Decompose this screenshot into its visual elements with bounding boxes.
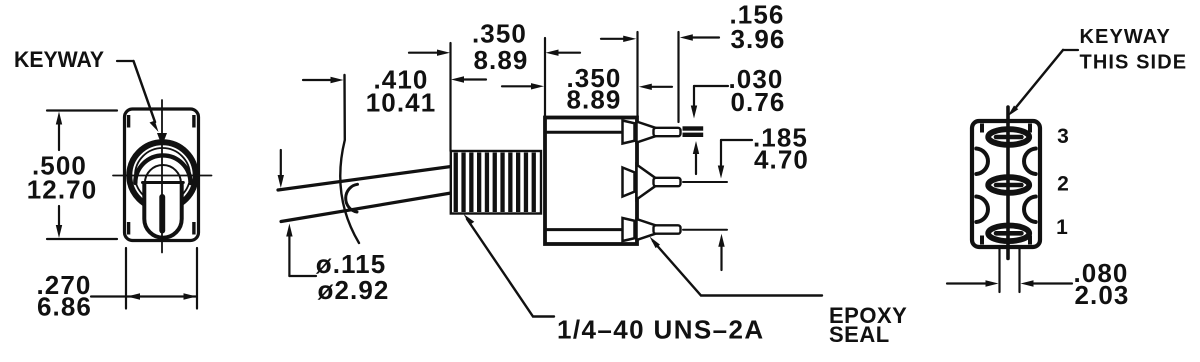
dimension .500 extension line top (47, 109, 117, 111)
terminal 3 oval (988, 129, 1029, 145)
svg-text:KEYWAY: KEYWAY (1080, 26, 1171, 48)
svg-text:6.86: 6.86 (37, 292, 92, 322)
lever equator line (143, 181, 184, 184)
rear corner ticks (980, 124, 984, 133)
dimension .185 extension line at pin3 (683, 229, 727, 231)
corner tick bottom-right (192, 222, 195, 235)
threads (454, 153, 536, 213)
switch body side outline (545, 118, 637, 245)
extension line at body right face (636, 32, 638, 117)
svg-text:1: 1 (1056, 216, 1068, 239)
svg-text:SEAL: SEAL (829, 322, 890, 347)
KEYWAY leader line (117, 60, 134, 62)
toggle lever lower line (281, 193, 451, 222)
lever ball dome outer arc (135, 155, 190, 183)
svg-text:0.76: 0.76 (730, 87, 785, 117)
horizontal centerline (113, 175, 212, 177)
terminal 2 oval (988, 177, 1029, 193)
.030 up arrow below bars (695, 152, 697, 174)
terminal 1 (top) (623, 121, 681, 144)
corner tick top-left (127, 115, 130, 128)
side bump arcs (976, 149, 988, 175)
lever swing arc + .410 extension (340, 75, 359, 243)
svg-text:12.70: 12.70 (27, 175, 98, 205)
dimension .270 line with arrows (91, 295, 197, 297)
dimension .350 #1 right arrow (554, 52, 580, 54)
terminal 1 oval (988, 226, 1029, 242)
threaded bushing outline (451, 151, 541, 214)
bushing inner circle (135, 148, 190, 203)
.185 down arrow + elbow to text (720, 140, 722, 168)
svg-text:2: 2 (1057, 173, 1069, 196)
dimension .500 line lower w/ down arrow (58, 206, 60, 227)
body interior line bottom (546, 228, 635, 231)
toggle lever upper line (278, 167, 451, 191)
1/4-40 leader (467, 219, 554, 317)
keyway this side leader (1063, 49, 1078, 51)
corner tick top-right (192, 115, 195, 128)
dimension .410 right arrow (460, 78, 486, 80)
svg-text:10.41: 10.41 (366, 88, 437, 118)
svg-text:4.70: 4.70 (754, 145, 809, 175)
svg-text:2.03: 2.03 (1074, 280, 1129, 310)
lever diameter top arrow (280, 150, 282, 178)
toggle lever capsule (144, 181, 181, 238)
dimension .270 extension line left (125, 248, 127, 309)
lever diameter bottom arrow + elbow (288, 234, 290, 276)
dimension .410 left arrow (303, 79, 334, 81)
switch body front outline (125, 109, 199, 241)
dimension .500 line upper w/ up arrow (58, 122, 60, 150)
corner tick bottom-left (127, 222, 130, 235)
rear centerline (1006, 107, 1010, 259)
dimension .080 extension lines (998, 249, 1000, 292)
terminal 2 (middle) (623, 165, 681, 200)
lever ball dome inner arc (145, 165, 181, 183)
dimension .156 left arrow (601, 38, 627, 40)
svg-text:.350: .350 (472, 19, 527, 49)
svg-text:1/4–40 UNS–2A: 1/4–40 UNS–2A (557, 315, 765, 345)
terminal 3 (bottom) (623, 218, 681, 241)
svg-text:3.96: 3.96 (730, 24, 785, 54)
extension line at thread start (449, 43, 451, 151)
svg-text:8.89: 8.89 (473, 45, 528, 75)
dimension .350 #2 left arrow (502, 85, 534, 87)
dimension .156 right arrow (688, 36, 719, 38)
dimension .500 extension line bottom (47, 238, 117, 240)
lever keyway slot (159, 194, 165, 234)
dimension .270 extension line right (196, 248, 198, 309)
dimension .080 arrows (947, 282, 990, 284)
extension line at pin end (677, 32, 679, 122)
vertical centerline (161, 100, 163, 253)
dimension .030 leader w/ down arrow (694, 85, 728, 87)
svg-text:KEYWAY: KEYWAY (14, 47, 104, 72)
bushing outer ring (129, 142, 195, 208)
svg-text:8.89: 8.89 (566, 85, 621, 115)
svg-text:3: 3 (1057, 125, 1069, 148)
.185 up arrow below pin3 line (720, 244, 722, 270)
dimension .350 #2 right arrow (650, 86, 672, 88)
body interior line top (547, 131, 634, 134)
svg-text:ø2.92: ø2.92 (318, 275, 390, 305)
epoxy seal leader (653, 241, 822, 296)
extension line at body left face (544, 38, 546, 117)
rear body outline (972, 121, 1040, 247)
lever tip cap arc (346, 184, 358, 212)
terminal 1 break bars (.030) (683, 126, 704, 130)
dimension .350 #1 left arrow (409, 52, 440, 54)
svg-text:THIS SIDE: THIS SIDE (1080, 52, 1188, 74)
keyway notch (157, 133, 167, 146)
dimension .185 extension line at pin2 (683, 181, 727, 183)
